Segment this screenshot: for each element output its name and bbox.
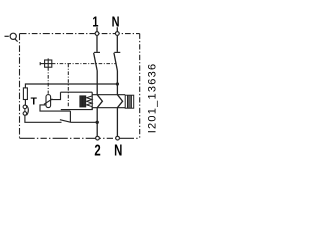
junction dot pole1/test xyxy=(96,121,99,124)
pole N CT feedthrough chevron xyxy=(117,95,122,108)
pole 1 lower conductor xyxy=(96,108,98,137)
relay coil capsule xyxy=(46,95,51,108)
test button bridge xyxy=(24,109,26,112)
handle knob xyxy=(10,33,16,39)
capsule diagonal xyxy=(44,99,53,104)
latch square horizontal line xyxy=(40,63,52,65)
test contact blade xyxy=(60,120,71,123)
pole N top stub xyxy=(116,27,118,32)
test button actuator arc xyxy=(27,105,29,115)
pole 1 switch blade xyxy=(94,53,98,71)
relay magnet hatched block xyxy=(80,96,86,107)
latch square vertical line xyxy=(47,58,49,67)
test button contact circle bottom xyxy=(23,112,27,116)
terminal circle N bottom xyxy=(116,136,120,140)
relay box top edge xyxy=(61,91,93,93)
mech linkage vertical to capsule xyxy=(47,67,49,94)
pole 1 upper conductor xyxy=(96,35,98,52)
handle knob linkage dash xyxy=(5,35,9,37)
wire pivot up to relay wire xyxy=(69,111,71,122)
pole 1 CT feedthrough chevron xyxy=(97,95,102,108)
capsule left wire xyxy=(40,105,70,111)
capsule right wire xyxy=(51,92,61,99)
svg-text:T: T xyxy=(31,96,38,107)
CT band bottom wire xyxy=(92,107,125,109)
enclosure border xyxy=(20,33,140,35)
mech linkage horizontal to blades xyxy=(52,63,116,65)
pole N upper conductor xyxy=(116,35,118,52)
mech linkage vertical to relay xyxy=(67,64,69,107)
svg-text:2: 2 xyxy=(94,142,101,159)
CT secondary winding hatched block xyxy=(125,95,134,108)
svg-text:N: N xyxy=(114,142,122,159)
svg-text:1: 1 xyxy=(92,13,98,30)
resistor R test xyxy=(23,88,27,100)
terminal circle 1 xyxy=(95,32,99,36)
pole 1 fixed contact tick xyxy=(94,51,100,53)
wire A button to contact xyxy=(25,115,62,122)
latch mechanism square xyxy=(45,60,52,67)
handle knob tail xyxy=(15,39,18,42)
test wire top xyxy=(25,84,117,88)
wire B contact to pole1 xyxy=(70,121,97,123)
CT band top wire xyxy=(92,94,125,96)
relay box right edge xyxy=(91,92,93,109)
pole 1 top stub xyxy=(96,27,98,32)
svg-text:I201_13636: I201_13636 xyxy=(146,63,158,134)
terminal circle 2 xyxy=(96,136,100,140)
wire resistor to button xyxy=(24,100,26,106)
pole 1 mid conductor xyxy=(96,71,98,95)
terminal circle N top xyxy=(115,32,119,36)
pole N lower conductor xyxy=(116,108,118,137)
pole N switch blade xyxy=(114,53,118,71)
test button contact circle top xyxy=(23,105,27,109)
pole N mid conductor xyxy=(116,71,118,95)
relay spring xyxy=(87,96,93,107)
relay box bottom edge xyxy=(61,108,92,110)
junction dot poleN/test xyxy=(116,82,119,85)
pole N fixed contact tick xyxy=(114,51,120,53)
svg-text:N: N xyxy=(112,13,120,30)
latch left tick xyxy=(39,62,41,65)
